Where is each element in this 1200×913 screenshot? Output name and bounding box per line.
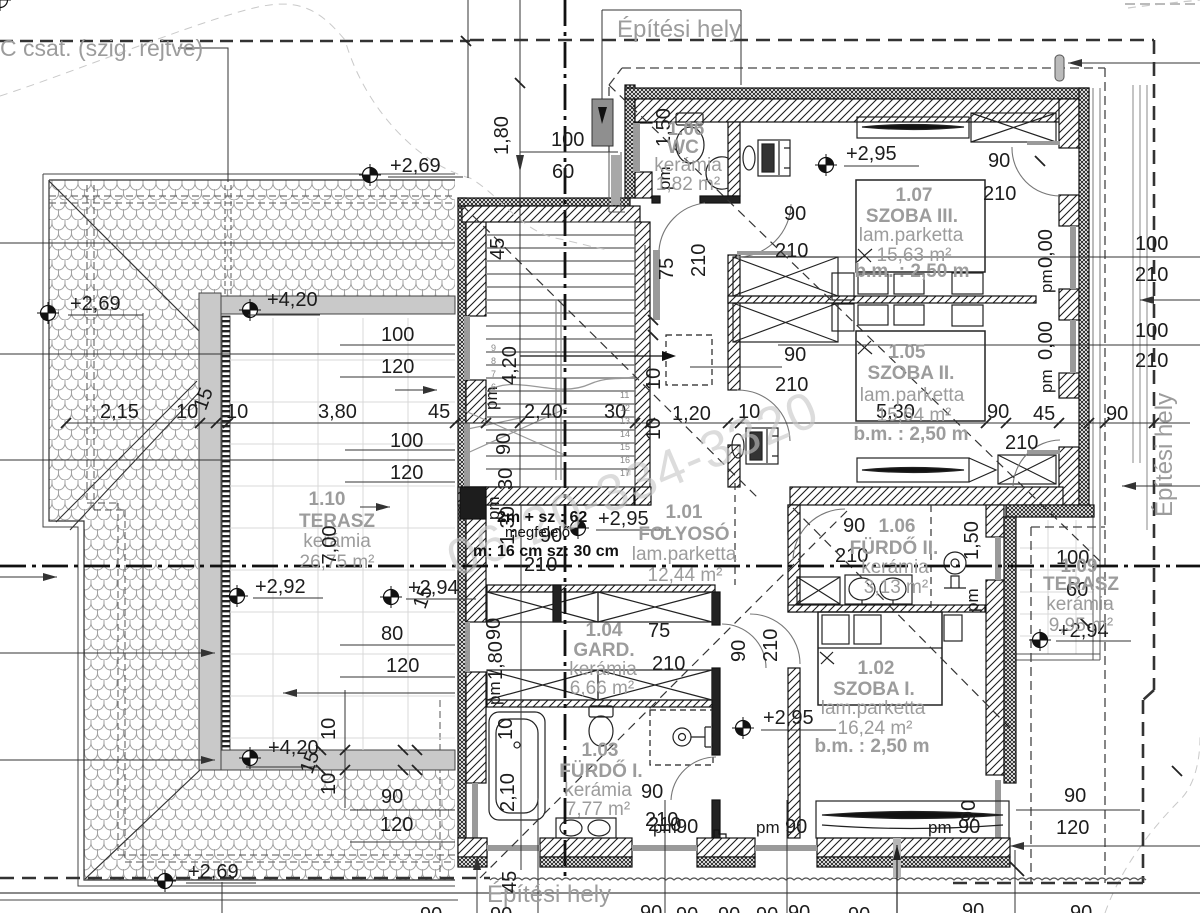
svg-text:Építési hely: Építési hely [1151,393,1178,517]
right arrow y846 [1010,845,1200,847]
terrace 1.09 border right [1016,460,1100,660]
gard top wall [487,585,715,592]
west wall block stair upper [466,206,486,316]
left horiz arrow line 1 [0,242,455,244]
sw corner arrow [476,856,478,913]
thin wall between szoba II and III [728,296,1036,303]
stair run diagonals [463,408,567,456]
svg-text:30: 30 [495,468,517,490]
svg-text:210: 210 [524,554,557,576]
roof plan left wing: tiled surface [49,180,455,880]
west window glazing 2 [464,423,470,487]
gard west stub [553,585,561,622]
stair bottom wall [458,487,635,505]
svg-text:210: 210 [652,653,685,675]
chimney dashed square corridor [666,335,712,385]
svg-text:45: 45 [1033,403,1055,425]
svg-text:+2,69: +2,69 [70,293,121,315]
left horiz line 4 [0,576,57,578]
bottom vertical dim lines [222,798,1015,913]
svg-text:90: 90 [756,904,778,913]
top wall window lens [857,117,969,138]
svg-text:11: 11 [620,390,629,400]
dim vertical line x468 top [467,0,469,178]
svg-text:TERASZ: TERASZ [1043,574,1119,595]
south sill grey line 2 [632,845,697,851]
svg-text:8: 8 [491,356,496,366]
east window glazing 2 [1070,320,1076,373]
svg-text:1.10: 1.10 [309,489,346,510]
dim vertical line x520 [520,0,521,870]
stair numbers [491,343,630,478]
svg-text:13: 13 [620,416,630,426]
inner thin dashed boundary [609,68,1105,883]
svg-text:pm: pm [485,681,504,705]
furdo I toilet [589,706,613,746]
dim arrow 1.80 [516,155,524,172]
svg-text:3,80: 3,80 [318,401,357,423]
grey contour dashed curve [0,4,609,250]
wc west window glazing [633,123,640,172]
gard wardrobe row1 box2 [598,592,712,622]
svg-text:2,10: 2,10 [497,773,519,812]
svg-text:14: 14 [620,429,630,439]
dashed line near building bottom left [439,700,441,880]
svg-text:90: 90 [848,904,870,913]
svg-text:120: 120 [390,462,423,484]
svg-text:210: 210 [688,244,710,277]
svg-text:90: 90 [640,902,662,913]
stairs treads [486,235,635,469]
svg-text:90: 90 [420,904,442,913]
corridor east wall segment 2 [728,445,740,487]
roof diagonal dashed D [462,205,758,498]
south big window with lens [816,801,1009,838]
svg-text:4,20: 4,20 [499,346,521,385]
svg-text:3,13 m²: 3,13 m² [864,577,928,598]
bed szoba II [832,304,985,421]
hash ticks on y423 [61,418,1159,428]
svg-text:7,00: 7,00 [319,526,341,565]
stair bottom pier [635,487,651,505]
svg-text:kerámia: kerámia [861,557,929,578]
svg-text:FÜRDŐ I.: FÜRDŐ I. [559,760,642,782]
svg-text:45: 45 [499,871,521,893]
svg-text:90: 90 [483,618,505,640]
gard door arc [722,624,766,668]
svg-text:90: 90 [1064,785,1086,807]
svg-text:+4,20: +4,20 [267,289,318,311]
wc wing west insulation [625,85,635,198]
svg-text:90: 90 [718,904,740,913]
svg-text:pm: pm [1037,369,1056,393]
door arcs [640,143,1060,838]
stair block top wall insulation [458,198,630,206]
svg-text:90: 90 [1070,902,1092,913]
east wall block 5 [1059,447,1079,505]
svg-text:12: 12 [620,403,630,413]
svg-text:100: 100 [551,129,584,151]
wc wing west wall upper [635,99,652,123]
svg-text:100: 100 [1135,233,1168,255]
east window glazing 1 [1070,226,1076,289]
furdo I shower dashed [650,710,713,765]
se step insulation [1006,505,1094,517]
south washbasin double [556,818,616,838]
valley parallel band [56,381,203,530]
svg-text:SZOBA I.: SZOBA I. [833,679,915,700]
grey band arrow [395,389,437,391]
wc washbasin [706,157,728,189]
wardrobe X upper corridor [733,257,838,296]
bottom cut digits [420,900,1092,913]
east wall upper: corner block [1059,99,1079,148]
svg-text:15: 15 [620,442,630,452]
hip line top-left [49,181,199,331]
svg-text:Építési hely: Építési hely [617,16,741,43]
roof outer outline [43,174,455,886]
svg-text:100: 100 [390,430,423,452]
furdo I shower head [673,727,711,747]
svg-text:16: 16 [620,455,630,465]
furdo I bathtub [489,712,545,820]
stair break S-line [486,376,635,392]
svg-text:210: 210 [760,629,782,662]
epitesi hely bottom dashed left [0,877,490,880]
svg-text:C csat. (szig. rejtve): C csat. (szig. rejtve) [0,35,203,61]
svg-text:90: 90 [784,203,806,225]
szoba I west wall upper [788,505,800,612]
svg-text:FOLYOSÓ: FOLYOSÓ [638,523,729,545]
sw corner post [468,838,487,856]
svg-text:15,64 m²: 15,64 m² [877,405,952,426]
terrace arrow [360,506,390,508]
desk szoba II [732,428,778,464]
right eaves edge lines [1093,88,1100,490]
svg-text:+2,69: +2,69 [390,155,441,177]
svg-text:90: 90 [958,800,980,822]
svg-text:0,00: 0,00 [1035,321,1057,360]
svg-text:120: 120 [1056,817,1089,839]
svg-text:SZOBA II.: SZOBA II. [868,363,955,384]
svg-text:1,80: 1,80 [491,116,513,155]
furdo II basin cabinet X [797,577,840,604]
south wall west corner [458,838,487,857]
top right pin [1068,62,1200,64]
svg-text:100: 100 [1135,320,1168,342]
terasz 1.09 dashed inner [1031,527,1105,883]
right dim lines [778,257,1200,345]
left horiz line y354 [0,353,455,355]
svg-text:90: 90 [987,401,1009,423]
furdo II left stub [788,533,797,535]
epitesi hely right dashed bold [950,40,1154,883]
left horiz arrow line 2 [0,652,215,654]
furdo II bottom wall [788,605,985,612]
right arrow y487 [1122,485,1200,487]
svg-text:80: 80 [381,623,403,645]
room labels [299,119,1119,820]
furdo I door arc [671,757,716,800]
svg-text:lam.parketta: lam.parketta [860,385,965,406]
main dim line y423 [66,422,1190,424]
svg-text:120: 120 [386,655,419,677]
bottom wavy boundary [490,878,1146,880]
east wall block 2 [1059,195,1079,226]
furdo II double washbasin [845,575,912,605]
left vertical ext line x143 [142,313,144,878]
stair well inner rect [520,222,635,487]
roof dashed eave lines top [49,196,455,203]
svg-text:2,40: 2,40 [524,401,563,423]
svg-text:7: 7 [491,369,496,379]
szoba I west wall lower [788,668,800,838]
svg-text:210: 210 [983,183,1016,205]
left horiz line y460 [0,459,455,461]
west insulation strip [458,198,466,866]
svg-text:90: 90 [381,786,403,808]
svg-text:SZOBA III.: SZOBA III. [866,206,958,227]
szoba II door arc [737,390,790,441]
wc toilet [676,113,704,163]
se corner post [986,838,1004,856]
svg-text:+2,69: +2,69 [188,861,239,883]
terrace left arrow y693 [283,692,455,694]
wc south wall stub [700,196,740,203]
svg-text:kerámia: kerámia [569,659,637,680]
terrace grey band vertical [199,293,221,770]
left horiz arrow line 3 [0,759,215,761]
bottom right door arc [1013,440,1060,487]
svg-text:pm: pm [963,588,982,612]
svg-text:90: 90 [641,781,663,803]
szoba I east wall [986,505,1004,537]
svg-text:kerámia: kerámia [1046,594,1114,615]
gard/furdo divider wall [487,700,713,707]
stair small rail grey [653,250,660,320]
svg-text:7,77 m²: 7,77 m² [566,799,630,820]
stair east wall [635,222,650,505]
wc wing eaves edge [609,152,625,212]
top wall insulation [625,88,1089,99]
svg-text:210: 210 [775,374,808,396]
bottom window arrow [896,845,898,913]
svg-text:90: 90 [490,904,512,913]
bed szoba I [818,612,962,705]
desk szoba III [743,140,790,176]
svg-text:1,50: 1,50 [961,521,983,560]
svg-text:10: 10 [643,418,665,440]
east insulation strip [1079,88,1089,517]
bed szoba III [832,180,985,300]
gard wardrobe row1 box1 [487,592,598,622]
svg-text:1,82 m²: 1,82 m² [656,174,720,195]
svg-text:lam.parketta: lam.parketta [859,225,964,246]
centerline dash-dot horizontal [0,565,1200,568]
svg-text:+2,92: +2,92 [255,576,306,598]
svg-text:10: 10 [738,401,760,423]
svg-text:+2,95: +2,95 [763,707,814,729]
svg-text:120: 120 [381,356,414,378]
svg-text:12,44 m²: 12,44 m² [648,565,723,586]
roof inner outline [49,180,455,880]
svg-text:60: 60 [552,161,574,183]
furdo II roof slope dashed vertical [930,505,932,612]
top right door arc [1012,147,1060,196]
west window glazing 4 [472,783,478,838]
svg-text:45: 45 [487,238,509,260]
svg-text:90: 90 [784,344,806,366]
wc wing west wall lower [635,172,652,198]
dim vertical x602 top [601,10,603,99]
svg-text:210: 210 [1135,350,1168,372]
terrace grey band top [221,296,455,314]
svg-text:90: 90 [540,525,562,547]
svg-text:90: 90 [493,433,515,455]
west wall block gard/furdo [466,672,486,783]
svg-text:120: 120 [380,814,413,836]
parapet dim line [344,690,346,808]
svg-text:6: 6 [491,382,496,392]
roof dashed eave lines left [87,185,125,862]
top wall wardrobe X [971,113,1056,142]
svg-text:90: 90 [1106,403,1128,425]
furdo II door arc [793,509,845,560]
svg-text:210: 210 [775,240,808,262]
south wall step detail [714,830,726,838]
terrace dim lines [340,345,455,677]
grey marker box [592,99,613,146]
svg-text:9,95 m²: 9,95 m² [1049,615,1113,636]
corridor east wall segment 1 [728,255,740,390]
south wall block A [540,838,632,857]
svg-text:kerámia: kerámia [564,780,632,801]
south wall block B [697,838,755,857]
svg-text:1.02: 1.02 [858,658,895,679]
main middle wall band west part [486,487,634,505]
dim lines roof bottom [350,810,455,842]
svg-text:90: 90 [676,904,698,913]
svg-text:10: 10 [643,368,665,390]
terrace railing ladder [222,316,230,750]
svg-text:90: 90 [676,816,698,838]
stair block top wall [462,206,640,222]
svg-text:90: 90 [988,150,1010,172]
south wall block C [817,838,1010,857]
svg-text:0,00: 0,00 [1035,229,1057,268]
svg-text:210: 210 [1135,264,1168,286]
hash ticks misc [316,36,1182,876]
west window glazing 1 [464,316,470,380]
gard wardrobe row2 box2 [598,670,712,700]
stair bottom dark corner [460,487,486,519]
svg-text:90: 90 [843,515,865,537]
east wall block 3 [1059,289,1079,320]
roof dashed eave lines bottom [118,855,455,862]
west wall block folyoso/gard [466,487,486,622]
svg-text:75: 75 [648,620,670,642]
right arrow y300 [1140,299,1200,301]
szoba I door arc [750,614,800,664]
svg-text:90: 90 [962,900,984,913]
stair handrail [556,300,561,480]
csat leader [178,48,228,182]
main middle wall band east part [790,487,1063,505]
terrace 1.09 right side floor grid [1020,520,1093,654]
gard east wall upper [712,592,720,625]
roof diagonal dashed C [793,508,1010,728]
svg-text:10: 10 [495,718,517,740]
svg-text:pm: pm [756,818,780,837]
svg-text:90: 90 [728,640,750,662]
szoba I east insulation [1004,517,1016,783]
svg-text:1.06: 1.06 [879,516,916,537]
east lower window glazing 1 [995,537,1001,580]
svg-text:90: 90 [785,816,807,838]
svg-text:pm: pm [928,818,952,837]
svg-text:kerámia: kerámia [654,155,722,176]
svg-text:1,80: 1,80 [485,641,507,680]
wc east wall [728,122,740,196]
svg-text:75: 75 [656,258,678,280]
hip line bottom [85,770,200,879]
leader line y10 [602,10,741,85]
svg-text:b.m. : 2,50 m: b.m. : 2,50 m [853,424,968,445]
east lower window glazing 2 [995,780,1001,838]
wc south wall left stub [652,196,660,203]
svg-text:6,66 m²: 6,66 m² [570,678,634,699]
bottom window lens szoba II [857,458,996,482]
east wall block 4 [1059,373,1079,398]
section line dash-dot vertical [564,0,567,880]
south sill grey line 1 [487,845,540,851]
svg-text:1.01: 1.01 [666,502,703,523]
top wall [635,99,1079,122]
svg-text:45: 45 [428,401,450,423]
svg-text:1.03: 1.03 [582,740,619,761]
wardrobe X lower corridor [733,303,838,342]
svg-text:GARD.: GARD. [573,640,634,661]
top csat dashed line [0,40,470,43]
szoba I east wall lower [986,580,1004,775]
furdo II toilet [944,552,966,588]
svg-text:1.07: 1.07 [896,185,933,206]
gard wardrobe row2 box1 [487,670,598,700]
folyoso roof slope dashed vertical [734,483,736,585]
terrace floor grid [273,318,408,750]
svg-text:1.04: 1.04 [586,620,623,641]
furdo I east wall lower [712,800,720,838]
svg-text:100: 100 [381,324,414,346]
level symbols [0,0,11,11]
svg-text:210: 210 [1005,432,1038,454]
property line bottom solid [0,892,1200,894]
svg-text:lam.parketta: lam.parketta [821,698,926,719]
svg-text:2,15: 2,15 [100,401,139,423]
roof diagonal dashed A [609,85,1105,566]
south sill grey line 3 [755,845,817,851]
middle band door gap jamb [788,505,797,533]
svg-text:9: 9 [491,343,496,353]
west wall block stair mid [466,380,486,423]
svg-text:90: 90 [788,902,810,913]
svg-text:10: 10 [226,401,248,423]
wc door arc [659,203,705,250]
gard east wall lower / furdo I east wall [712,668,720,755]
svg-text:lam.parketta: lam.parketta [632,544,737,565]
szoba III door arc [737,204,791,257]
bottom wall wardrobe X szoba II [998,455,1056,484]
